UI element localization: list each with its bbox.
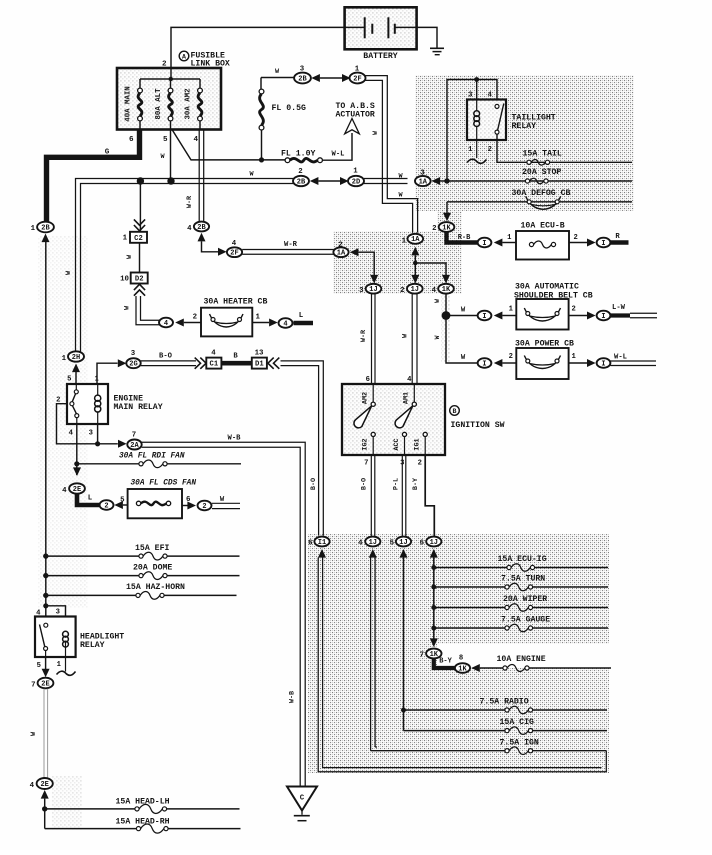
svg-text:W-R: W-R xyxy=(284,241,298,249)
svg-text:1A: 1A xyxy=(411,236,420,244)
svg-text:2: 2 xyxy=(400,287,404,295)
30A POWER CB xyxy=(515,340,574,380)
battery B1 xyxy=(345,7,417,61)
wire relay pin3 xyxy=(97,424,99,444)
svg-text:7: 7 xyxy=(31,682,35,690)
svg-text:MAIN RELAY: MAIN RELAY xyxy=(114,403,163,412)
svg-text:15A TAIL: 15A TAIL xyxy=(523,150,562,159)
10A ECU-B fuse box xyxy=(516,222,569,260)
svg-text:1J: 1J xyxy=(411,286,419,294)
svg-text:7: 7 xyxy=(132,432,136,440)
svg-text:G: G xyxy=(105,149,110,157)
svg-text:B-O: B-O xyxy=(361,478,369,490)
connector 4 (heater right) xyxy=(279,318,293,328)
svg-text:4: 4 xyxy=(193,136,198,144)
svg-text:30A FL RDI FAN: 30A FL RDI FAN xyxy=(119,453,185,461)
wire junction to taillight relay xyxy=(447,80,497,182)
svg-text:I1: I1 xyxy=(318,539,326,547)
junction node (big) xyxy=(442,311,451,320)
headlight relay xyxy=(35,609,124,671)
svg-text:W: W xyxy=(434,335,441,339)
ground (battery) xyxy=(430,48,444,54)
svg-text:4: 4 xyxy=(69,430,74,438)
7.5A IGN fuse line xyxy=(371,739,607,755)
wire relay pin5 to 2E xyxy=(45,651,47,658)
svg-text:1K: 1K xyxy=(442,286,451,294)
svg-text:2: 2 xyxy=(572,306,576,314)
svg-text:5: 5 xyxy=(67,376,71,384)
wire 1K4 branch down to power CB xyxy=(446,316,478,364)
10A ENGINE fuse line xyxy=(480,655,611,671)
svg-text:L: L xyxy=(299,312,304,320)
svg-text:4: 4 xyxy=(488,92,493,100)
svg-text:3: 3 xyxy=(131,350,136,358)
wire W double 2D to 1A xyxy=(364,178,408,180)
connector I (power right) xyxy=(597,358,611,368)
svg-text:W-L: W-L xyxy=(614,354,627,362)
svg-text:1: 1 xyxy=(468,146,473,154)
wire 2B3 branch down xyxy=(260,78,262,90)
svg-text:1: 1 xyxy=(402,238,407,246)
svg-text:30A AM2: 30A AM2 xyxy=(185,88,193,119)
wire to headlight fuses xyxy=(44,799,46,829)
svg-text:IG1: IG1 xyxy=(414,438,422,450)
svg-text:2: 2 xyxy=(298,168,302,176)
node DOME branch xyxy=(43,573,48,578)
svg-text:C1: C1 xyxy=(210,361,219,369)
wire G (thick) pin6 to 2B xyxy=(47,130,140,222)
svg-text:10A ENGINE: 10A ENGINE xyxy=(497,655,546,664)
svg-text:L-W: L-W xyxy=(612,304,626,312)
svg-text:2G: 2G xyxy=(129,361,137,369)
wire relay pin2 to 15A TAIL xyxy=(497,134,632,162)
wire L stub xyxy=(294,321,314,326)
wire B-Y IG1 down jog xyxy=(425,455,434,536)
svg-text:2B: 2B xyxy=(297,178,306,186)
node headlight relay T xyxy=(43,603,48,608)
arrow TO A.B.S ACTUATOR xyxy=(336,102,375,134)
svg-text:6: 6 xyxy=(420,540,425,548)
wire W double from junction to 2B xyxy=(76,179,294,352)
wire W-R double 1J3 to AM2 xyxy=(371,294,373,385)
wire B thick xyxy=(221,361,251,366)
svg-text:2E: 2E xyxy=(73,486,81,494)
svg-text:C2: C2 xyxy=(134,235,143,243)
svg-text:1K: 1K xyxy=(430,651,439,659)
wire B-O double xyxy=(141,360,196,362)
svg-text:13: 13 xyxy=(255,350,264,358)
wire B-O double IG2 down xyxy=(370,455,372,536)
svg-text:7: 7 xyxy=(420,652,424,660)
connector I (shoulder right) xyxy=(597,311,611,321)
svg-text:IG2: IG2 xyxy=(362,438,370,450)
svg-text:P-L: P-L xyxy=(393,478,401,490)
15A EFI fuse line xyxy=(46,544,240,560)
svg-text:RELAY: RELAY xyxy=(80,641,105,650)
svg-text:L: L xyxy=(88,495,93,503)
svg-text:10A ECU-B: 10A ECU-B xyxy=(521,222,565,231)
svg-text:15A EFI: 15A EFI xyxy=(135,544,169,553)
svg-text:B-O: B-O xyxy=(310,478,318,490)
svg-text:80A ALT: 80A ALT xyxy=(155,88,163,120)
fusible link box (A) xyxy=(117,68,221,130)
svg-text:C: C xyxy=(300,795,305,803)
wire FL box pin5 down xyxy=(170,130,172,182)
connector I (shoulder left) xyxy=(478,311,492,321)
svg-text:5: 5 xyxy=(120,497,125,505)
svg-text:2: 2 xyxy=(432,225,436,233)
svg-text:3: 3 xyxy=(56,609,60,617)
wire C2 to D2 xyxy=(139,243,141,273)
engine main relay xyxy=(56,376,163,438)
svg-text:1A: 1A xyxy=(419,178,428,186)
wire to 2F xyxy=(202,241,219,251)
30A FL RDI FAN fuse line xyxy=(77,453,241,468)
wire R thick xyxy=(611,240,629,244)
svg-text:1: 1 xyxy=(57,661,62,669)
svg-text:2: 2 xyxy=(162,61,167,69)
svg-text:4: 4 xyxy=(211,350,216,358)
svg-text:1J: 1J xyxy=(430,539,438,547)
20A STOP fuse line xyxy=(440,168,632,184)
wire W double 1J2 to AM1 xyxy=(411,293,413,384)
wire P-L 1J5 down xyxy=(403,558,405,731)
svg-text:1: 1 xyxy=(509,306,514,314)
svg-text:2F: 2F xyxy=(353,75,361,83)
wire to ABS actuator xyxy=(322,133,352,160)
faint wire 2E to 2E xyxy=(43,689,45,778)
svg-text:6: 6 xyxy=(129,136,134,144)
fusible link 40A MAIN xyxy=(125,79,143,130)
svg-text:D1: D1 xyxy=(255,361,264,369)
wire relay pin4 down xyxy=(76,424,78,475)
connector 2 (cds left) xyxy=(100,500,114,510)
wire relay pin1 pigtail xyxy=(476,140,478,158)
svg-text:10: 10 xyxy=(120,276,129,284)
wire R-B thick to ECU-B row xyxy=(447,232,478,242)
wire to C2 xyxy=(139,181,141,232)
connector 1K pin7 xyxy=(430,638,438,647)
svg-text:I: I xyxy=(601,360,605,368)
svg-text:1K: 1K xyxy=(458,665,467,673)
shaded region connector cluster 1A/1J/1K xyxy=(333,231,462,294)
svg-text:W: W xyxy=(434,299,441,303)
svg-text:6: 6 xyxy=(366,376,370,384)
svg-text:7.5A IGN: 7.5A IGN xyxy=(500,739,539,748)
wire down to 1K2 xyxy=(446,202,448,214)
svg-text:R: R xyxy=(615,233,620,241)
svg-text:20A WIPER: 20A WIPER xyxy=(503,595,547,604)
svg-text:BATTERY: BATTERY xyxy=(363,52,397,61)
svg-text:4: 4 xyxy=(407,376,412,384)
7.5A TURN fuse line xyxy=(431,575,608,591)
wire battery positive to fusible link box pin 2 xyxy=(171,27,345,68)
diagonal wire pin5 to FL 1.0Y feed xyxy=(172,130,285,160)
node EFI branch xyxy=(43,553,48,558)
svg-text:2: 2 xyxy=(488,146,492,154)
svg-text:1J: 1J xyxy=(369,539,377,547)
svg-text:1: 1 xyxy=(353,168,358,176)
svg-text:2E: 2E xyxy=(41,680,49,688)
svg-text:W-R: W-R xyxy=(360,329,368,342)
svg-text:B-O: B-O xyxy=(159,353,173,361)
svg-text:4: 4 xyxy=(164,320,168,328)
svg-text:W: W xyxy=(461,354,466,362)
svg-text:1: 1 xyxy=(123,235,128,243)
svg-text:4: 4 xyxy=(358,540,363,548)
svg-text:3: 3 xyxy=(359,287,364,295)
svg-text:15A HEAD-RH: 15A HEAD-RH xyxy=(116,818,170,827)
wire relay pin1 pigtail xyxy=(65,657,67,672)
svg-text:4: 4 xyxy=(283,320,287,328)
svg-text:4: 4 xyxy=(62,487,67,495)
wire L thick xyxy=(77,494,99,505)
fusible link FL 1.0Y xyxy=(281,150,322,163)
svg-text:ACC: ACC xyxy=(393,438,401,450)
fusible link FL 0.5G xyxy=(259,89,306,130)
wire W double 2F down-jog to 1A xyxy=(366,76,418,233)
svg-text:1: 1 xyxy=(62,355,67,363)
15A TAIL fuse xyxy=(523,150,562,166)
svg-text:A: A xyxy=(182,54,186,61)
svg-text:LINK BOX: LINK BOX xyxy=(191,60,230,69)
svg-text:I: I xyxy=(482,240,486,248)
svg-text:AM2: AM2 xyxy=(362,392,370,404)
svg-text:W-R: W-R xyxy=(186,195,194,208)
20A DOME fuse line xyxy=(46,564,240,580)
fusible link 80A ALT xyxy=(155,79,173,130)
wire W double xyxy=(212,502,240,504)
svg-text:W: W xyxy=(461,307,466,315)
wire W-R double to 1A2 xyxy=(242,249,334,251)
15A HEAD-RH fuse line xyxy=(45,818,241,834)
svg-text:2: 2 xyxy=(418,460,422,468)
wire W to 2B xyxy=(261,77,294,79)
connector I (ecu-b right) xyxy=(597,238,611,248)
wire 1K4 down xyxy=(445,294,447,316)
svg-text:1K: 1K xyxy=(442,224,451,232)
svg-text:7.5A GAUGE: 7.5A GAUGE xyxy=(501,616,550,625)
svg-text:1: 1 xyxy=(31,225,36,233)
svg-text:40A MAIN: 40A MAIN xyxy=(125,86,133,121)
svg-text:IGNITION SW: IGNITION SW xyxy=(451,421,505,430)
wire to 1K4 xyxy=(415,263,446,276)
svg-text:2E: 2E xyxy=(40,781,48,789)
wire to 1J3 xyxy=(358,252,374,276)
svg-text:2H: 2H xyxy=(72,354,80,362)
svg-text:7: 7 xyxy=(364,460,368,468)
fusible link 30A AM2 xyxy=(185,79,203,130)
svg-text:1: 1 xyxy=(256,314,261,322)
svg-text:FL 0.5G: FL 0.5G xyxy=(272,104,306,113)
wire D2 to heater CB row xyxy=(136,296,159,325)
wire xyxy=(252,322,269,324)
svg-text:FL 1.0Y: FL 1.0Y xyxy=(281,150,315,159)
svg-text:I: I xyxy=(482,313,486,321)
svg-text:1: 1 xyxy=(572,353,577,361)
svg-text:2: 2 xyxy=(574,234,578,242)
wire down left side xyxy=(45,242,47,606)
svg-text:W-L: W-L xyxy=(332,151,345,159)
svg-text:7.5A TURN: 7.5A TURN xyxy=(501,575,545,584)
svg-text:B: B xyxy=(233,353,238,361)
wire battery negative to ground xyxy=(417,27,437,47)
svg-text:7.5A RADIO: 7.5A RADIO xyxy=(480,698,529,707)
svg-text:4: 4 xyxy=(187,225,192,233)
wire B-Y 1J6 down xyxy=(433,558,435,640)
7.5A RADIO fuse line xyxy=(401,698,607,714)
connector 2E (engine relay out) xyxy=(73,467,81,476)
15A CIG fuse line xyxy=(404,718,608,734)
svg-text:30A DEFOG CB: 30A DEFOG CB xyxy=(512,189,571,198)
taillight relay xyxy=(467,92,556,155)
wire P-L double ACC down xyxy=(401,455,403,537)
svg-text:3: 3 xyxy=(89,430,93,438)
svg-text:2B: 2B xyxy=(197,224,206,232)
svg-text:4: 4 xyxy=(30,782,35,790)
shaded region top-right (taillight relay / junction block) xyxy=(415,75,634,211)
svg-text:2: 2 xyxy=(202,503,206,511)
svg-text:1: 1 xyxy=(95,376,100,384)
svg-text:B-Y: B-Y xyxy=(412,477,420,490)
svg-text:1J: 1J xyxy=(369,286,377,294)
svg-text:2: 2 xyxy=(104,502,108,510)
svg-text:20A STOP: 20A STOP xyxy=(522,168,561,177)
svg-text:2D: 2D xyxy=(352,178,360,186)
svg-text:15A CIG: 15A CIG xyxy=(500,718,534,727)
svg-text:4: 4 xyxy=(432,287,437,295)
ignition switch (B) xyxy=(342,376,445,455)
ground C xyxy=(287,787,317,821)
svg-text:2: 2 xyxy=(193,314,197,322)
svg-text:D2: D2 xyxy=(135,276,144,284)
svg-text:R-B: R-B xyxy=(458,234,471,242)
svg-text:1J: 1J xyxy=(399,539,407,547)
svg-text:W: W xyxy=(372,131,379,135)
connector 2A pin7 xyxy=(118,440,127,448)
svg-text:I: I xyxy=(601,240,605,248)
svg-text:6: 6 xyxy=(308,540,313,548)
svg-text:ACTUATOR: ACTUATOR xyxy=(336,111,375,120)
wire B-Y thick jog to 1K8 xyxy=(434,659,456,668)
30A AUTOMATIC SHOULDER BELT CB xyxy=(514,283,593,330)
junction node xyxy=(137,177,144,184)
svg-text:AM1: AM1 xyxy=(403,392,411,404)
label A FUSIBLE LINK BOX xyxy=(179,51,230,68)
20A WIPER fuse line xyxy=(431,595,608,611)
svg-text:1: 1 xyxy=(507,234,512,242)
15A HAZ-HORN fuse line xyxy=(46,583,237,599)
wire relay pin2 loop to 2A row xyxy=(57,404,118,444)
wire B-O loop I1 to IGN fuse xyxy=(318,558,606,772)
30A DEFOG CB line xyxy=(447,189,632,209)
svg-text:15A ECU-IG: 15A ECU-IG xyxy=(498,555,547,564)
svg-text:15A HAZ-HORN: 15A HAZ-HORN xyxy=(126,583,185,592)
svg-text:B-Y: B-Y xyxy=(439,658,452,666)
svg-text:2F: 2F xyxy=(230,250,238,258)
svg-text:30A FL CDS FAN: 30A FL CDS FAN xyxy=(131,480,197,488)
connector I (ecu-b left) xyxy=(478,238,492,248)
svg-text:2: 2 xyxy=(509,353,513,361)
svg-text:30A HEATER CB: 30A HEATER CB xyxy=(204,298,268,307)
svg-text:B: B xyxy=(453,408,457,415)
svg-text:RELAY: RELAY xyxy=(512,122,537,131)
wire relay pin1 to 2G xyxy=(97,363,118,384)
30A HEATER CB xyxy=(201,298,267,337)
shaded region bottom fuse block xyxy=(308,534,609,773)
connector I (power left) xyxy=(478,358,492,368)
node HAZ branch xyxy=(43,593,48,598)
connector 2 (cds right) xyxy=(198,501,212,511)
bus bar inside fusible link box xyxy=(140,78,200,80)
svg-text:1A: 1A xyxy=(337,250,346,258)
7.5A GAUGE fuse line xyxy=(431,616,608,632)
svg-text:I: I xyxy=(482,360,486,368)
svg-text:3: 3 xyxy=(468,92,472,100)
svg-text:W-B: W-B xyxy=(228,435,242,443)
30A FL CDS FAN xyxy=(128,480,197,519)
wire W-R double pin4 down xyxy=(198,130,200,222)
svg-text:2A: 2A xyxy=(130,442,139,450)
wire xyxy=(184,322,201,324)
svg-text:5: 5 xyxy=(37,662,41,670)
connector 4 (heater left) xyxy=(159,318,173,328)
svg-text:2B: 2B xyxy=(41,224,50,232)
wire B-O 1J4 down xyxy=(370,558,372,751)
svg-text:8: 8 xyxy=(459,655,463,663)
svg-text:5: 5 xyxy=(163,136,168,144)
svg-text:30A AUTOMATIC: 30A AUTOMATIC xyxy=(515,283,579,292)
wire B-O double to ignition I1 xyxy=(281,361,324,536)
15A ECU-IG fuse line xyxy=(431,555,608,571)
svg-text:I: I xyxy=(601,313,605,321)
svg-text:20A DOME: 20A DOME xyxy=(133,564,172,573)
svg-text:5: 5 xyxy=(390,540,395,548)
wire W-B double to ground C xyxy=(142,442,306,786)
left light band xyxy=(38,236,88,608)
svg-text:2B: 2B xyxy=(298,75,307,83)
svg-text:W-B: W-B xyxy=(289,691,297,703)
label B IGNITION SW xyxy=(450,406,505,430)
15A HEAD-LH fuse line xyxy=(45,798,240,814)
